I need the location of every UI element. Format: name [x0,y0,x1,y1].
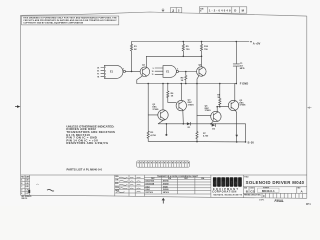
wire Q1 collector [145,56,147,67]
transistor Q5 [228,100,246,111]
junction gnd/R6 [167,83,169,85]
signature mark in parts box [47,189,54,191]
svg-text:3790S: 3790S [188,104,195,106]
junction on rail at C1 [236,41,238,43]
junction Q3 emitter row [183,123,185,125]
resistor R3 [147,131,157,141]
sheet outer border [21,12,307,198]
wire Q3 collector [180,84,182,101]
transistor Q4 [197,63,207,76]
printed circuit rev row [244,193,303,198]
wire Q2 base column [147,84,149,132]
junction gnd/Q2 column [147,83,149,85]
junction Q4 emitter on gnd line [196,83,198,85]
svg-text:A +5V: A +5V [253,41,261,45]
resistor R10 [200,42,208,68]
svg-text:TRANSISTOR & DIODE CONVERSION: TRANSISTOR & DIODE CONVERSION CHART [157,175,199,178]
svg-text:M040-0-1: M040-0-1 [262,189,275,193]
svg-text:FINAL: FINAL [275,199,284,203]
svg-text:PARTS LIST A PL M040-0-0: PARTS LIST A PL M040-0-0 [67,168,103,172]
wire collector bus to R10 column [146,55,201,57]
svg-text:D: D [234,9,236,13]
svg-text:CS: CS [250,190,254,194]
fold mark arrow left border [15,105,20,108]
svg-text:10: 10 [152,71,154,73]
svg-text:4,700: 4,700 [203,135,209,138]
wire Q2 base [148,114,158,116]
svg-text:H1: H1 [97,77,99,79]
svg-text:3790S: 3790S [239,105,246,107]
junction R5 bottom [183,56,185,58]
svg-text:6-69: 6-69 [26,183,29,185]
top margin drawing-number strip [199,7,247,13]
svg-text:9: 9 [153,68,154,70]
wire Q2 collector [162,84,164,110]
svg-text:4,700: 4,700 [150,134,156,137]
svg-text:DEC3790S: DEC3790S [146,181,155,183]
notes text block [66,124,115,145]
svg-text:COPYRIGHT 1969 BY DIGITAL EQUI: COPYRIGHT 1969 BY DIGITAL EQUIPMENT CORP… [23,22,83,25]
svg-text:1P 1: 1P 1 [306,204,311,206]
top margin drawing-number tab small box [171,8,182,13]
svg-text:3K: 3K [134,49,137,51]
wire Q5 emitter down to -30 bus [235,110,238,142]
+5V rail [132,41,252,44]
junction gate2 output / R9 [185,71,187,73]
svg-text:SIZE: SIZE [200,8,203,10]
svg-text:3790S: 3790S [205,110,212,112]
svg-text:C: C [263,195,265,198]
left revision column table [21,175,31,195]
svg-text:D662: D662 [146,186,150,188]
resistor R1 [130,44,137,71]
junction on rail at R5 [183,41,185,43]
svg-text:6: 6 [177,69,178,71]
NAND gate E1 (left section) [97,65,125,78]
fold mark arrow top border [161,8,164,12]
junction gnd/Q3 collector [181,83,183,85]
wire QA base column / resistor R7 column [196,84,198,132]
svg-text:8: 8 [123,69,124,71]
wire Q5 collector [234,84,236,102]
svg-text:E1: E1 [97,70,99,72]
svg-text:1N3606: 1N3606 [163,189,169,191]
junction gnd/R8 [219,83,221,85]
svg-text:E: E [21,193,22,195]
svg-text:3790S: 3790S [152,109,159,111]
wire QA base [197,114,211,116]
svg-text:SN7416: SN7416 [163,191,169,194]
below-border form number text [22,196,33,200]
svg-text:D664: D664 [146,188,150,191]
resistor R8 [217,84,221,108]
NAND gate E1 (right section) [152,66,179,78]
digital logo block [212,175,243,198]
junction R10 column [201,56,203,58]
wire Q5 base line [217,106,228,108]
junction Q6 collector / Q5 base [216,106,218,108]
junction terminal stub [165,123,167,136]
transistor Q1 [140,65,150,77]
svg-text:D1: D1 [97,67,99,69]
capacitor C1 [233,42,245,84]
svg-text:11: 11 [152,74,154,76]
wire Q6 collector [216,107,218,112]
svg-text:DRB 110: DRB 110 [22,198,28,200]
svg-text:1K: 1K [181,80,184,82]
wire gate1 output to Q1 base [126,70,141,72]
resistor R7 [196,132,209,142]
wire Q3 emitter to diode row [182,110,185,124]
signature/date table [115,175,145,196]
resistor R5 [182,42,190,57]
transistor Q6 [205,105,221,121]
junction R9 bottom on gnd line [185,83,187,85]
diode D6 [212,124,216,131]
svg-text:1 OF 1: 1 OF 1 [259,200,264,202]
wire Q4 emitter [197,76,199,84]
svg-text:1N645: 1N645 [163,185,168,188]
transistor Q2 [152,104,168,120]
wire Q6 emitter to diode row [211,121,213,124]
fold mark arrow right border [307,107,312,109]
svg-text:g: g [222,180,225,186]
diode output row [158,124,245,142]
svg-text:3-70: 3-70 [26,193,29,195]
svg-text:RESISTORS ARE 1/4W,5%: RESISTORS ARE 1/4W,5% [66,141,108,145]
title block top line [21,174,307,176]
svg-text:B -30: B -30 [248,142,255,145]
svg-text:F GND: F GND [240,82,248,86]
wire gate2 output to Q4 base [179,71,197,73]
svg-text:SOLENOID DRIVER M040: SOLENOID DRIVER M040 [246,180,305,185]
svg-text:t: t [231,180,233,186]
GND line (node F) [137,83,237,85]
transistor &amp; diode conversion chart [144,175,211,198]
resistor R9 [181,72,187,84]
svg-text:PRINTED CIRCUIT REV.: PRINTED CIRCUIT REV. [244,195,261,197]
svg-text:F1: F1 [97,74,99,76]
connector pin strip [137,161,190,167]
svg-text:d: d [213,180,216,186]
disclaimer note box top-left [22,16,119,25]
svg-text:2N4258: 2N4258 [163,182,169,185]
svg-text:REV: REV [21,176,24,178]
output bus (-30) [148,141,246,143]
wire Q1 emitter [137,76,143,84]
diode D1 [187,122,191,129]
size/code/number/rev strip [243,187,306,194]
svg-text:8-69: 8-69 [26,186,29,188]
transistor Q3 [176,100,194,111]
svg-text:DEC6534B: DEC6534B [146,182,155,185]
svg-text:CORPORATION: CORPORATION [212,191,237,194]
svg-text:DRN: DRN [115,176,118,178]
junction gate1 output / R1 [131,71,133,73]
junction on rail at R10 [201,41,203,43]
wire Q2 emitter to diode row [158,119,164,123]
svg-text:1-70: 1-70 [26,190,29,192]
fold mark arrow bottom border [162,198,165,204]
svg-text:DEC7416: DEC7416 [146,191,153,194]
svg-text:DEC FORM NO: DEC FORM NO [22,196,33,198]
svg-text:2: 2 [172,9,174,13]
title text [244,176,304,185]
junction QA emitter row [210,123,212,125]
resistor R6 [167,84,176,103]
svg-text:TITLE: TITLE [244,176,248,178]
svg-text:2N3790: 2N3790 [163,181,169,183]
svg-text:MFD: MFD [240,68,245,70]
junction gnd/Q2 collector [162,83,164,85]
